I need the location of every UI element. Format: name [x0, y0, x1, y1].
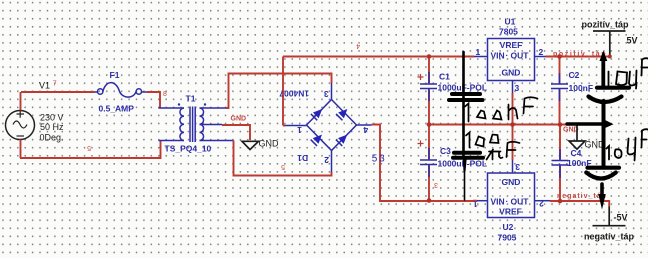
svg-text:2: 2 — [539, 199, 544, 209]
wire center tap to ground — [222, 125, 250, 140]
svg-text:VIN: VIN — [491, 197, 505, 207]
svg-text:1N4007: 1N4007 — [279, 89, 309, 99]
regulator U1 7805 — [474, 16, 546, 93]
annotation 10uF (C4, handwritten) — [607, 129, 648, 160]
annotation marker C3 plates — [453, 153, 483, 158]
junction (512.5,124.5) — [510, 122, 515, 127]
svg-text:7805: 7805 — [499, 27, 518, 37]
wire U2 pin3 up — [512, 125, 514, 161]
capacitor C4 — [552, 148, 592, 178]
svg-text:negatív_táp: negatív_táp — [584, 231, 635, 241]
capacitor C1 — [418, 72, 488, 102]
svg-text:U1: U1 — [505, 16, 516, 26]
transformer T1 — [159, 94, 234, 154]
capacitor C2 — [551, 70, 593, 101]
junction (603,56.5) — [608, 55, 612, 59]
svg-text:100nF: 100nF — [569, 83, 594, 93]
bridge rectifier D1 — [279, 83, 372, 172]
svg-text:1: 1 — [476, 47, 481, 57]
annotation marker lead C2-C4 — [600, 52, 606, 166]
annotation 100nF (C1, handwritten) — [465, 97, 538, 121]
wire C1 branch — [428, 57, 430, 125]
annotation marker bus arrow — [567, 120, 614, 129]
svg-text:F1: F1 — [110, 70, 120, 80]
source V1 — [6, 81, 65, 159]
svg-text:3: 3 — [324, 89, 329, 99]
junction (560,124.5) — [558, 122, 563, 127]
svg-text:0Deg.: 0Deg. — [40, 132, 64, 142]
wire U1 out to port — [546, 56, 611, 58]
svg-text:VREF: VREF — [499, 207, 522, 217]
fuse F1 — [94, 70, 147, 114]
svg-text:1000uF-POL: 1000uF-POL — [438, 159, 488, 169]
wire C2 branch — [559, 57, 561, 125]
svg-text:·: · — [506, 50, 509, 60]
junction (559.5,56.5) — [557, 54, 562, 59]
svg-text:2: 2 — [324, 155, 329, 165]
junction (429,124.5) — [427, 122, 432, 127]
svg-text:4: 4 — [363, 125, 368, 135]
svg-text:5: 5 — [87, 144, 91, 151]
mid GND bus wire — [429, 124, 577, 126]
svg-text:53: 53 — [372, 154, 387, 165]
wire secondary top to bridge — [226, 74, 332, 109]
svg-text:C3: C3 — [440, 146, 451, 156]
svg-text:230 V: 230 V — [40, 112, 64, 122]
annotation marker C2 plates — [589, 88, 630, 102]
svg-text:C4: C4 — [571, 148, 582, 158]
wire C4 branch — [559, 125, 561, 202]
annotation nF (C3, handwritten) — [487, 142, 520, 160]
svg-text:2: 2 — [539, 47, 544, 57]
svg-text:3: 3 — [515, 83, 520, 93]
annotation marker C4 plates — [586, 168, 619, 179]
svg-text:3: 3 — [434, 181, 438, 188]
wire bottom rail left — [473, 200, 477, 202]
svg-text:50 Hz: 50 Hz — [40, 122, 64, 132]
svg-text:5: 5 — [281, 163, 285, 170]
svg-text:7: 7 — [53, 81, 57, 88]
ground (mid bus) — [569, 125, 605, 150]
capacitor C3 — [418, 141, 488, 178]
wire bridge left output up to bus — [283, 57, 285, 126]
svg-text:T1: T1 — [186, 94, 196, 104]
svg-text:1: 1 — [297, 125, 302, 135]
svg-text:0.5_AMP: 0.5_AMP — [99, 104, 135, 114]
wire U2 out to port — [550, 201, 609, 207]
annotation marker arrow to negativ rail — [598, 184, 605, 210]
annotation marker C1 plates — [449, 94, 483, 100]
svg-text:D1: D1 — [297, 153, 308, 163]
annotation 10uF (C2, handwritten) — [609, 58, 648, 88]
svg-text:V1: V1 — [39, 81, 50, 91]
svg-text:OUT: OUT — [511, 197, 530, 207]
svg-text:VREF: VREF — [500, 40, 523, 50]
svg-text:OUT: OUT — [511, 51, 530, 61]
svg-text:8: 8 — [163, 91, 167, 98]
port pozitiv_tap — [582, 20, 638, 57]
svg-text:C1: C1 — [439, 72, 450, 82]
svg-text:-5V: -5V — [614, 213, 628, 223]
junction (560,201) — [558, 199, 563, 204]
annotation marker lead C1-C3 — [464, 52, 467, 200]
wire V1 top to fuse — [21, 91, 94, 93]
wire U1 pin3 down — [512, 93, 514, 125]
svg-text:TS_PQ4_10: TS_PQ4_10 — [165, 144, 212, 154]
junction (429,200.5) — [427, 198, 432, 203]
svg-text:·: · — [506, 196, 509, 206]
annotation 100 (C3, handwritten) — [466, 133, 499, 148]
svg-text:GND: GND — [502, 177, 521, 187]
wire secondary bottom to bridge — [234, 141, 332, 176]
regulator U2 7905 — [473, 160, 550, 243]
svg-text:GND: GND — [259, 139, 280, 149]
top bus wire — [283, 56, 474, 58]
svg-text:pozitív_táp: pozitív_táp — [582, 20, 630, 30]
junction (429,56.5) — [427, 54, 432, 59]
svg-text:4: 4 — [356, 42, 360, 49]
svg-text:U2: U2 — [503, 222, 514, 232]
svg-text:GND: GND — [502, 68, 521, 78]
svg-text:3: 3 — [515, 162, 520, 172]
wire V1 bottom — [20, 141, 161, 159]
wire bridge right output down — [372, 125, 477, 202]
svg-text:C2: C2 — [569, 70, 580, 80]
wire fuse to transformer — [147, 92, 160, 108]
svg-text:7905: 7905 — [498, 233, 517, 243]
svg-text:VIN: VIN — [491, 51, 505, 61]
svg-text:GND: GND — [231, 116, 247, 123]
port negativ_tap — [584, 207, 635, 242]
ground (transformer center tap) — [242, 139, 279, 150]
svg-text:5V: 5V — [627, 36, 638, 46]
wire C3 branch — [428, 125, 430, 201]
